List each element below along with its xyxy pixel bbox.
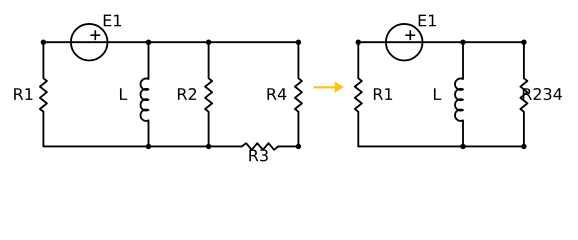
wire: left circuit bottom rail, left section — [43, 112, 241, 147]
wire: left circuit bottom rail, right section — [278, 145, 298, 147]
node: left circuit top-left junction — [41, 40, 46, 45]
wire: right circuit top rail — [358, 41, 524, 43]
wire: left circuit top rail — [43, 41, 298, 43]
node: left circuit R4 top junction — [296, 40, 301, 45]
label R2 — [178, 88, 196, 100]
node: left circuit R2 top junction — [206, 40, 211, 45]
resistor R3 (horizontal, bottom rail) — [242, 143, 279, 150]
label E1 (left circuit) — [104, 15, 121, 27]
label R3 — [249, 149, 267, 161]
resistor R1 (right circuit) — [355, 42, 362, 146]
voltage source E1 (left circuit) — [71, 24, 108, 61]
node: right circuit L top junction — [460, 40, 465, 45]
inductor L (left circuit) — [141, 42, 149, 146]
node: left circuit L top junction — [146, 40, 151, 45]
resistor R1 (left circuit) — [40, 42, 47, 112]
label L (left circuit) — [120, 88, 127, 100]
resistor R2 — [205, 42, 212, 146]
label R234 — [523, 88, 562, 100]
node: left circuit R2 bottom junction — [206, 144, 211, 149]
resistor R4 — [295, 42, 302, 146]
resistor R234 — [520, 42, 527, 146]
node: right circuit R234 top junction — [521, 40, 526, 45]
node: left circuit L bottom junction — [146, 144, 151, 149]
voltage source E1 (right circuit) — [386, 24, 423, 61]
plus polarity mark of E1 (left circuit) — [90, 30, 100, 40]
label E1 (right circuit) — [419, 15, 436, 27]
label R1 (left circuit) — [14, 88, 32, 100]
inductor L (right circuit) — [455, 42, 463, 146]
node: left circuit R4 bottom junction — [296, 144, 301, 149]
node: right circuit L bottom junction — [460, 144, 465, 149]
equivalence arrow — [314, 81, 344, 92]
label R4 — [267, 88, 286, 100]
plus polarity mark of E1 (right circuit) — [405, 30, 415, 40]
label L (right circuit) — [434, 88, 441, 100]
node: right circuit top-left junction — [356, 40, 361, 45]
label R1 (right circuit) — [374, 88, 392, 100]
node: right circuit R234 bottom junction — [521, 144, 526, 149]
wire: right circuit bottom rail — [358, 145, 524, 147]
